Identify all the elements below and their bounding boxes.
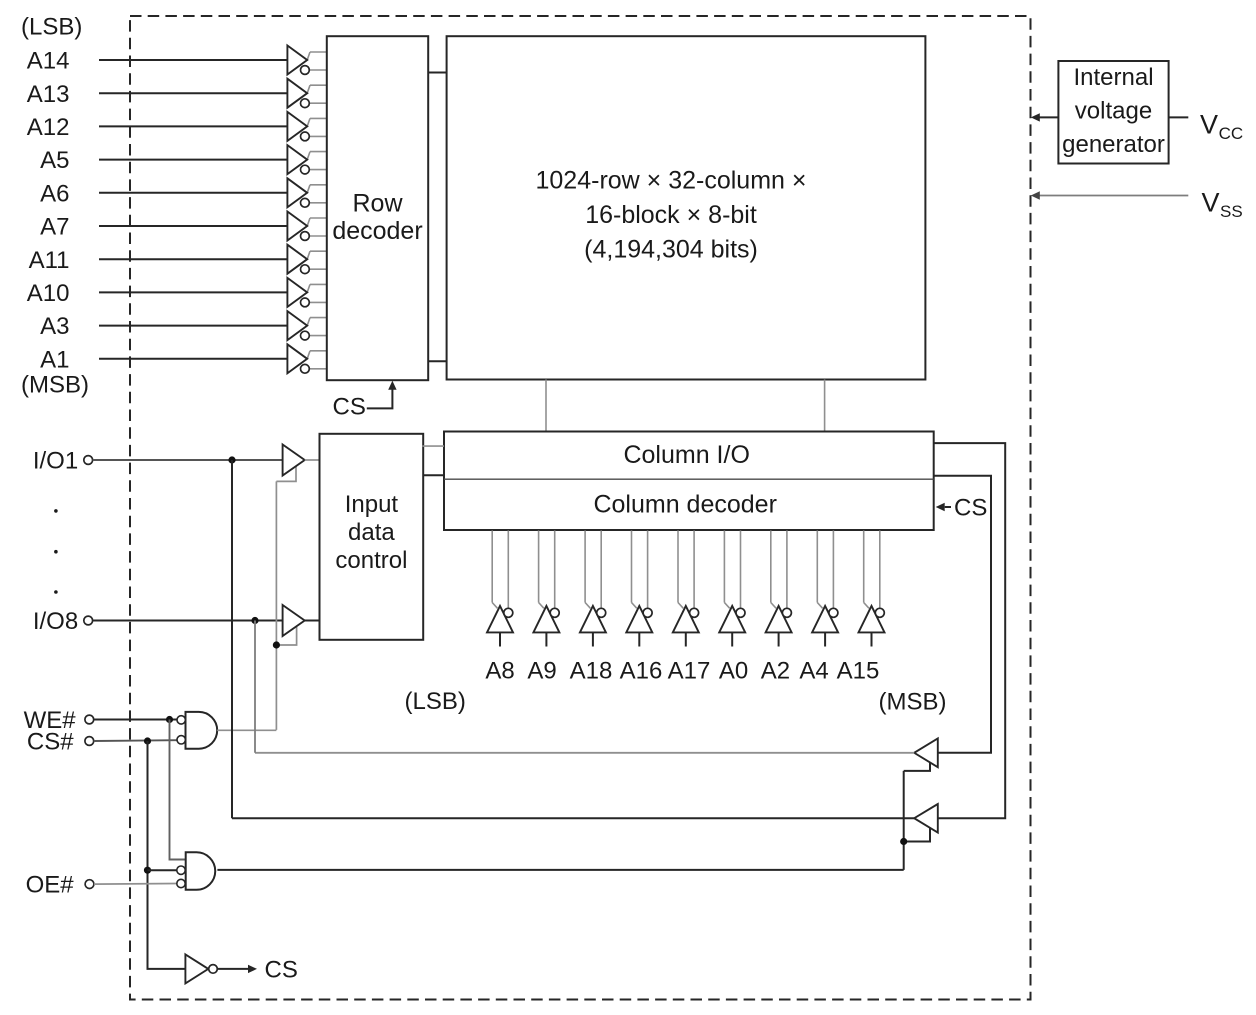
svg-text:A15: A15 — [837, 658, 880, 685]
svg-text:I/O8: I/O8 — [33, 608, 78, 635]
svg-text:CS: CS — [333, 394, 366, 421]
wire U2 output (output enable) — [217, 869, 903, 871]
svg-text:A0: A0 — [719, 658, 748, 685]
wire Vcc generator to chip — [1040, 116, 1059, 118]
arrow CS into column decoder — [936, 503, 945, 511]
wire Vss — [1040, 195, 1189, 197]
wire CS to row decoder — [367, 390, 393, 409]
row decoder label — [332, 189, 422, 245]
wire U1 output (write enable) — [217, 729, 276, 731]
wire A14 input — [99, 59, 287, 61]
svg-text:Input: Input — [345, 491, 399, 518]
svg-text:V: V — [1200, 109, 1218, 139]
column address buffer A4 — [812, 531, 838, 647]
wire A7 input — [99, 225, 287, 227]
column address buffer A2 — [766, 531, 792, 647]
svg-text:A2: A2 — [761, 658, 790, 685]
svg-text:(4,194,304 bits): (4,194,304 bits) — [584, 236, 758, 264]
wire control to column I/O (lower) — [423, 474, 445, 476]
svg-text:A12: A12 — [27, 114, 70, 141]
node I/O1 junction — [228, 456, 235, 463]
and-gate U1 (WE#/CS#) — [177, 712, 217, 749]
address buffer A13 (true/complement outputs) — [287, 79, 327, 108]
svg-text:A3: A3 — [40, 313, 69, 340]
wire A3 input — [99, 325, 287, 327]
column address buffer A16 — [626, 531, 652, 647]
node I/O8 junction — [251, 617, 258, 624]
svg-text:CC: CC — [1219, 124, 1244, 143]
svg-text:voltage: voltage — [1075, 98, 1152, 125]
and-gate U2 (output enable) — [177, 852, 215, 890]
chip boundary (dashed) — [130, 16, 1031, 1000]
column I/O box — [444, 432, 934, 531]
wire OE# — [94, 883, 176, 886]
svg-text:A11: A11 — [29, 247, 70, 274]
input buffer I/O1 — [283, 445, 305, 476]
address buffer A10 (true/complement outputs) — [287, 278, 327, 307]
memory array label — [536, 167, 807, 264]
output buffer 1 — [914, 738, 938, 767]
svg-text:A10: A10 — [27, 280, 70, 307]
svg-text:Row: Row — [352, 189, 403, 217]
wire column I/O to output buffer 2 — [934, 443, 1006, 818]
address buffer A1 (true/complement outputs) — [287, 344, 327, 373]
wire input buffer enables — [275, 481, 277, 730]
internal voltage generator box — [1058, 61, 1168, 164]
wire A13 input — [99, 92, 287, 94]
column address buffer A0 — [719, 531, 745, 647]
svg-text:control: control — [335, 547, 407, 574]
inverter U3 (CS) — [185, 954, 217, 983]
wire row decoder to array (top) — [428, 72, 446, 74]
wire output buffer enables — [903, 771, 905, 870]
svg-text:A16: A16 — [620, 658, 663, 685]
wire CS# to U2 — [148, 869, 177, 871]
address buffer A11 (true/complement outputs) — [287, 245, 327, 274]
svg-text:(LSB): (LSB) — [21, 14, 82, 41]
internal voltage generator label — [1062, 64, 1165, 158]
arrow into row decoder — [388, 381, 396, 390]
wire enable to I/O8 buffer — [276, 627, 296, 645]
svg-text:A1: A1 — [40, 346, 69, 373]
svg-text:Internal: Internal — [1073, 64, 1153, 91]
svg-text:decoder: decoder — [332, 217, 422, 245]
label Vss — [1202, 187, 1243, 221]
input buffer I/O8 — [283, 605, 305, 636]
row decoder box — [327, 36, 428, 380]
svg-text:A6: A6 — [40, 180, 69, 207]
svg-text:A4: A4 — [799, 658, 828, 685]
output buffer 2 — [914, 804, 938, 833]
node CS# junction — [144, 737, 151, 744]
wire A10 input — [99, 291, 287, 293]
terminal OE# — [85, 880, 94, 889]
svg-text:I/O1: I/O1 — [33, 448, 78, 475]
arrow Vss into chip — [1031, 191, 1040, 199]
address buffer A5 (true/complement outputs) — [287, 145, 327, 174]
wire I/O1 buffer to control — [305, 459, 320, 461]
wire WE# — [94, 719, 177, 721]
wire Vcc — [1169, 116, 1189, 118]
svg-text:CS#: CS# — [27, 729, 74, 756]
column I/O / column decoder divider — [444, 478, 934, 480]
memory array box — [447, 36, 926, 379]
label Vcc — [1200, 109, 1243, 143]
arrow CS out — [248, 965, 257, 973]
input data control box — [320, 434, 424, 640]
svg-text:SS: SS — [1220, 202, 1243, 221]
svg-text:(LSB): (LSB) — [405, 688, 466, 715]
wire WE# to U2 — [170, 720, 186, 860]
svg-text:(MSB): (MSB) — [879, 689, 947, 716]
wire CS# — [94, 739, 177, 742]
address buffer A3 (true/complement outputs) — [287, 311, 327, 340]
wire I/O8 output riser — [254, 621, 256, 753]
ellipsis dots — [54, 509, 58, 594]
wire I/O8 buffer to control — [305, 620, 320, 622]
svg-text:Column I/O: Column I/O — [623, 441, 749, 469]
column address buffer A18 — [580, 531, 606, 647]
terminal WE# — [85, 715, 94, 724]
svg-text:A7: A7 — [40, 214, 69, 241]
svg-text:CS: CS — [954, 495, 987, 522]
svg-text:(MSB): (MSB) — [21, 371, 89, 398]
svg-text:1024-row × 32-column ×: 1024-row × 32-column × — [536, 167, 807, 195]
node enable junction — [273, 641, 280, 648]
wire A1 input — [99, 358, 287, 360]
wire A5 input — [99, 159, 287, 161]
svg-text:CS: CS — [265, 956, 298, 983]
column address buffer A8 — [487, 531, 513, 647]
wire CS# down to inverter — [148, 741, 186, 969]
wire row decoder to array (bottom) — [428, 360, 446, 362]
svg-text:A5: A5 — [40, 147, 69, 174]
svg-text:16-block × 8-bit: 16-block × 8-bit — [585, 201, 757, 229]
svg-text:A8: A8 — [485, 658, 514, 685]
svg-text:generator: generator — [1062, 131, 1165, 158]
wire A6 input — [99, 192, 287, 194]
input data control label — [335, 491, 407, 574]
node output enable junction — [900, 838, 907, 845]
arrow Vcc into chip — [1031, 113, 1040, 121]
wire I/O1 output riser — [231, 460, 233, 818]
wire column I/O to output buffer 1 — [934, 476, 991, 753]
wire A11 input — [99, 258, 287, 260]
wire array to column I/O (right) — [824, 380, 826, 432]
wire enable to output buffer 2 — [904, 828, 930, 842]
wire output buffer 2 to I/O1 — [232, 817, 914, 819]
node CS# to U2 junction — [144, 867, 151, 874]
wire inverter output — [217, 968, 248, 970]
svg-text:A18: A18 — [570, 658, 613, 685]
address buffer A6 (true/complement outputs) — [287, 178, 327, 207]
node WE# junction — [166, 716, 173, 723]
svg-text:OE#: OE# — [26, 872, 75, 899]
wire I/O8 input — [93, 620, 283, 622]
wire A12 input — [99, 125, 287, 127]
column address buffer A9 — [533, 531, 559, 647]
column address buffer A17 — [673, 531, 699, 647]
svg-text:A9: A9 — [527, 658, 556, 685]
wire array to column I/O (left) — [545, 380, 547, 432]
address buffer A14 (true/complement outputs) — [287, 46, 327, 75]
wire enable to output buffer 1 — [904, 762, 930, 771]
wire CS stub — [945, 506, 951, 508]
terminal CS# — [85, 737, 94, 746]
svg-text:A17: A17 — [668, 658, 711, 685]
svg-text:Column decoder: Column decoder — [593, 490, 776, 518]
wire I/O1 input — [93, 459, 283, 461]
terminal I/O1 — [84, 456, 93, 465]
address buffer A12 (true/complement outputs) — [287, 112, 327, 141]
svg-text:data: data — [348, 519, 395, 546]
svg-text:A13: A13 — [27, 81, 70, 108]
address buffer A7 (true/complement outputs) — [287, 212, 327, 241]
wire enable to I/O1 buffer — [276, 466, 296, 482]
terminal I/O8 — [84, 616, 93, 625]
svg-text:V: V — [1202, 187, 1220, 217]
svg-text:A14: A14 — [27, 48, 70, 75]
wire output buffer 1 to I/O8 — [255, 752, 914, 754]
wire control to column I/O (upper) — [423, 445, 445, 447]
column address buffer A15 — [859, 531, 885, 647]
